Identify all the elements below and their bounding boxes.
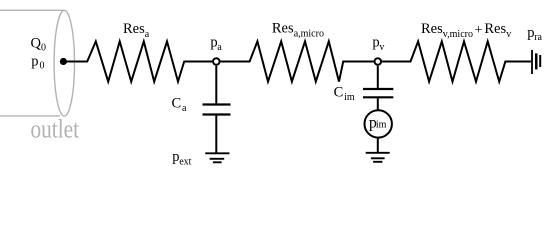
- svg-text:v: v: [379, 42, 384, 53]
- svg-text:outlet: outlet: [31, 115, 80, 144]
- svg-text:a,micro: a,micro: [294, 28, 324, 39]
- svg-text:C: C: [334, 84, 344, 100]
- svg-text:+: +: [475, 23, 483, 38]
- svg-text:C: C: [172, 96, 182, 112]
- svg-text:0: 0: [41, 43, 46, 54]
- svg-text:Res: Res: [123, 21, 145, 37]
- svg-text:a: a: [217, 42, 222, 53]
- svg-text:a: a: [145, 29, 150, 40]
- svg-text:Res: Res: [421, 21, 443, 37]
- svg-text:p: p: [31, 53, 38, 69]
- svg-text:0: 0: [40, 61, 45, 72]
- svg-text:v: v: [506, 29, 511, 40]
- svg-text:im: im: [376, 119, 387, 130]
- svg-text:Q: Q: [31, 35, 42, 51]
- svg-text:ext: ext: [179, 157, 191, 168]
- svg-text:ra: ra: [534, 32, 542, 43]
- svg-text:Res: Res: [484, 21, 506, 37]
- svg-text:a: a: [182, 103, 187, 114]
- svg-text:im: im: [344, 92, 355, 103]
- svg-text:v,micro: v,micro: [443, 29, 473, 40]
- svg-text:Res: Res: [272, 21, 294, 37]
